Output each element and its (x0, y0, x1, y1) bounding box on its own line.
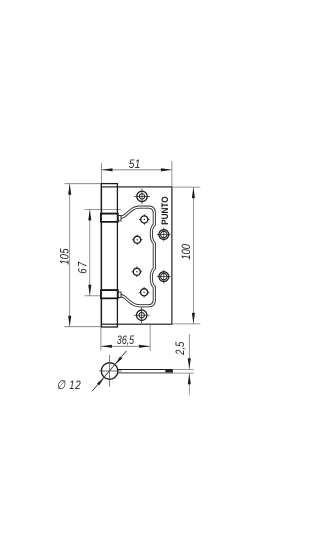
svg-text:PUNTO: PUNTO (160, 196, 170, 225)
hinge back leaf plate (102, 187, 172, 324)
extension 36.5 left (100, 328, 102, 351)
svg-text:51: 51 (129, 158, 141, 171)
contour top stub (117, 216, 121, 221)
dim line 2.5 (188, 334, 190, 369)
leader arrow upper (115, 357, 122, 365)
extension line 51 left (101, 163, 103, 184)
barrel (101, 184, 117, 327)
extension line 67 top (85, 208, 122, 210)
arrow 100 top (192, 187, 195, 198)
arrow 105 bottom (68, 316, 71, 327)
screw hole bottom big (134, 307, 150, 323)
screw hole right 1 (157, 228, 171, 242)
extension line 105 bottom (65, 326, 102, 328)
svg-text:2,5: 2,5 (174, 341, 187, 356)
arrow 67 top (88, 209, 91, 220)
dim line 51 (102, 169, 172, 171)
side view leaf (118, 369, 173, 373)
extension line 100 top (172, 186, 200, 188)
extension line 51 right (171, 161, 173, 187)
screw hole right 2 (157, 270, 171, 284)
arrow 36.5 left (101, 345, 112, 348)
arrow 51 left (102, 168, 113, 171)
svg-text:∅ 12: ∅ 12 (57, 379, 82, 392)
arrow 2.5 lower (188, 373, 191, 384)
arrow 2.5 upper (188, 358, 191, 369)
arrow 51 right (161, 168, 172, 171)
screw hole small 7 (139, 287, 150, 298)
dim line 36.5 (101, 345, 150, 347)
dim line 105 (69, 184, 71, 327)
screw hole top big (134, 189, 150, 205)
dim line 100 (192, 187, 194, 324)
knuckle band top (100, 213, 118, 222)
extension line 105 top (65, 183, 102, 185)
arrow 100 bottom (192, 313, 195, 324)
arrow 67 bottom (88, 285, 91, 296)
front leaf wavy contour (double line) (119, 207, 154, 306)
leader line diameter 12 (92, 351, 126, 391)
dim line 67 (89, 209, 91, 295)
screw hole small 3 (132, 235, 143, 246)
knuckle band bottom (100, 290, 118, 299)
svg-text:67: 67 (76, 260, 89, 273)
side view crosshair (99, 370, 122, 372)
extension 36.5 right (149, 324, 151, 351)
screw hole small 2 (139, 214, 150, 225)
extension 2.5 top (172, 368, 193, 370)
extension line 100 bottom (172, 323, 200, 325)
svg-text:36,5: 36,5 (117, 334, 134, 348)
svg-text:100: 100 (180, 244, 193, 260)
svg-text:105: 105 (59, 248, 72, 265)
contour bottom stub (117, 292, 121, 297)
side view knuckle circle (101, 363, 117, 379)
arrow 105 top (68, 184, 71, 195)
screw hole small 5 (132, 267, 143, 278)
arrow 36.5 right (139, 345, 150, 348)
extension line 67 bottom (85, 295, 101, 297)
leader arrow lower (97, 377, 104, 385)
extension 2.5 bottom (172, 372, 193, 374)
